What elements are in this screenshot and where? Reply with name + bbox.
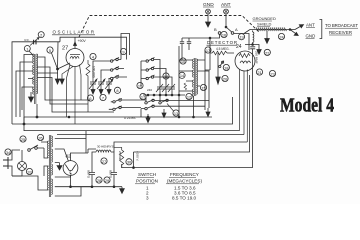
label 2 xyxy=(38,32,44,38)
ground: detector cathode xyxy=(216,77,220,84)
wire: bus y=130.5 xyxy=(24,117,240,131)
svg-text:+90V: +90V xyxy=(78,39,87,43)
rf choke L2 xyxy=(245,31,254,46)
svg-text:22: 22 xyxy=(265,50,269,55)
svg-text:24: 24 xyxy=(236,44,242,50)
svg-text:23: 23 xyxy=(270,71,274,76)
wire: bus y=152 xyxy=(134,75,250,152)
svg-text:18: 18 xyxy=(224,65,228,70)
svg-text:DETECTOR: DETECTOR xyxy=(207,40,237,45)
svg-text:25: 25 xyxy=(21,137,25,142)
label 24 xyxy=(278,33,284,39)
wire: PSU risers xyxy=(85,131,87,154)
svg-text:4: 4 xyxy=(92,54,95,59)
filter choke L3 xyxy=(92,145,114,169)
ground: plate bypass xyxy=(253,45,262,55)
capacitor C29 (8 MFD) xyxy=(109,168,118,187)
wire: T3 left leads xyxy=(41,142,48,190)
chassis dashed boundary xyxy=(79,16,260,38)
wire: bus y=142 xyxy=(114,142,247,152)
label 14 xyxy=(179,72,185,78)
label 17 xyxy=(205,47,211,53)
svg-text:33: 33 xyxy=(27,169,31,174)
label 34 xyxy=(5,149,11,155)
wire: main box left border and top border xyxy=(12,37,127,124)
svg-text:A.2136S: A.2136S xyxy=(124,116,136,120)
svg-text:SHIELD: SHIELD xyxy=(257,22,272,27)
wire: T2 left taps xyxy=(179,46,194,117)
wire: bottom bus y=124 xyxy=(12,97,233,124)
svg-text:(MEGACYCLES): (MEGACYCLES) xyxy=(167,179,202,184)
antenna trimmer C2 xyxy=(25,38,40,46)
label 13 xyxy=(167,104,179,117)
svg-text:250 MMF: 250 MMF xyxy=(254,51,258,64)
capacitor C28 (8 MFD) xyxy=(87,168,96,187)
switch: cathode tap xyxy=(219,61,224,68)
svg-text:12: 12 xyxy=(187,94,191,99)
variable capacitor C6 xyxy=(89,78,97,89)
switch S1a contacts xyxy=(93,58,127,80)
svg-text:8MFD: 8MFD xyxy=(87,170,91,179)
wire: shielded cable xyxy=(244,25,304,36)
svg-text:ANT: ANT xyxy=(306,23,315,28)
ground: from shield cable xyxy=(265,31,270,43)
label 18b xyxy=(223,64,229,70)
brace xyxy=(320,20,322,39)
ground: osc grid return xyxy=(60,79,64,84)
wire: bus y=134.5 xyxy=(57,134,244,136)
label 30 xyxy=(126,159,132,165)
svg-text:4.5 MEG.: 4.5 MEG. xyxy=(216,47,230,51)
wire: trimmer bus xyxy=(143,94,185,96)
capacitor C21 xyxy=(250,47,258,168)
label 22 xyxy=(264,49,270,55)
wire: contact B to circuit xyxy=(182,34,220,38)
tube V3 82 (rectifier) xyxy=(63,153,88,187)
svg-text:Model 4: Model 4 xyxy=(280,96,334,117)
ground: caps common xyxy=(91,88,111,94)
wire: detector cathode xyxy=(217,53,219,77)
transformer T3 (power) xyxy=(48,135,53,197)
svg-text:7: 7 xyxy=(102,95,104,100)
svg-text:5: 5 xyxy=(49,48,51,53)
svg-text:POSITION: POSITION xyxy=(136,179,158,184)
svg-text:3: 3 xyxy=(146,196,149,201)
wire: filter bottom xyxy=(71,186,123,188)
switch S1c contacts xyxy=(109,98,146,110)
svg-text:8: 8 xyxy=(116,88,118,93)
lamp xyxy=(12,150,27,176)
resistor R1 grid leak xyxy=(86,60,96,112)
svg-text:RECEIVER: RECEIVER xyxy=(329,30,352,35)
wire: T1 left taps xyxy=(16,55,33,125)
svg-text:21: 21 xyxy=(257,70,261,75)
switch S2 rows xyxy=(141,95,209,117)
label 7 xyxy=(100,94,106,100)
transformer T1 (antenna coil) xyxy=(33,54,38,104)
switch: power xyxy=(12,145,44,190)
svg-text:100,000: 100,000 xyxy=(92,66,96,78)
label 27 xyxy=(101,158,107,164)
svg-text:A: A xyxy=(235,27,238,32)
svg-text:FREQUENCY: FREQUENCY xyxy=(170,172,199,177)
svg-text:16: 16 xyxy=(222,32,226,37)
trimmer capacitor bank xyxy=(156,84,175,95)
label 4 xyxy=(90,53,96,59)
label 6 xyxy=(87,95,93,101)
svg-text:18: 18 xyxy=(164,74,168,79)
svg-text:25,000: 25,000 xyxy=(118,151,122,161)
resistor R3 bleeder xyxy=(114,147,124,168)
transformer T2 (detector coil) xyxy=(193,58,198,96)
table: switch position / frequency xyxy=(136,172,202,201)
label 10 xyxy=(180,58,186,64)
svg-text:29: 29 xyxy=(105,178,109,183)
label 5 xyxy=(47,47,58,69)
svg-text:27: 27 xyxy=(102,159,106,164)
wire: junction to tube xyxy=(58,42,71,79)
label 16 xyxy=(221,31,227,37)
svg-text:OSCILLATOR: OSCILLATOR xyxy=(53,30,95,35)
svg-text:TO BROADCAST: TO BROADCAST xyxy=(325,23,358,28)
wire: T1 bottom leads xyxy=(36,104,38,117)
ground: filter bottom xyxy=(120,187,125,194)
label 35 xyxy=(37,134,43,140)
switch S1b contacts xyxy=(141,58,172,87)
wire: bottom bus y=117 xyxy=(24,116,212,118)
svg-text:9: 9 xyxy=(122,49,124,54)
label 25 xyxy=(20,136,26,142)
svg-text:1: 1 xyxy=(26,46,28,51)
label 33 xyxy=(26,168,32,174)
variable capacitor C7 xyxy=(97,78,105,89)
label 15 xyxy=(200,84,206,90)
variable capacitor C8 xyxy=(105,78,113,89)
switch: antenna selector xyxy=(214,14,238,34)
svg-text:28: 28 xyxy=(97,178,101,183)
capacitor C: coupling pair xyxy=(180,38,191,50)
label 23 xyxy=(269,70,275,76)
wire: jumper bridge xyxy=(121,34,130,60)
tube V1 27 (oscillator) xyxy=(62,37,84,124)
wire: T3 right taps xyxy=(55,139,92,196)
svg-text:8.5 TO 19.0: 8.5 TO 19.0 xyxy=(172,196,197,201)
label 8 xyxy=(114,87,120,93)
wire: bus y=168 xyxy=(122,152,253,168)
resistor R4 avc xyxy=(184,83,186,90)
label 29 xyxy=(104,177,110,183)
svg-text:30 HENRYS: 30 HENRYS xyxy=(97,145,114,149)
svg-text:SWITCH: SWITCH xyxy=(138,172,156,177)
svg-text:13: 13 xyxy=(174,111,178,116)
resistor R2 grid xyxy=(205,45,234,70)
svg-text:+180 V.: +180 V. xyxy=(136,151,140,161)
label 9 xyxy=(120,48,126,54)
svg-text:27: 27 xyxy=(62,46,68,52)
power plug xyxy=(3,150,20,176)
ground: under T1 xyxy=(29,92,34,102)
ground: under switch S2 xyxy=(146,108,210,123)
svg-text:2: 2 xyxy=(40,33,42,38)
label 16 xyxy=(137,82,143,88)
wire: rectifier output xyxy=(88,149,96,153)
svg-text:26: 26 xyxy=(38,135,42,140)
label 19 xyxy=(238,34,244,40)
label 21 xyxy=(256,69,262,75)
svg-text:GROUNDED: GROUNDED xyxy=(253,16,276,21)
svg-text:17: 17 xyxy=(206,48,210,53)
wire: T2 right taps xyxy=(197,38,210,110)
svg-text:R.F.: R.F. xyxy=(25,38,30,42)
label 18 xyxy=(163,73,169,79)
label 20 xyxy=(222,75,228,81)
label 12 xyxy=(186,93,192,99)
ground: T3 tap xyxy=(57,163,62,170)
label 28 xyxy=(96,177,102,183)
svg-text:6: 6 xyxy=(89,96,91,101)
wire: T1 right taps to middle xyxy=(37,57,114,112)
svg-text:240: 240 xyxy=(147,88,152,92)
label 1 xyxy=(24,46,33,56)
svg-text:B: B xyxy=(214,27,217,32)
svg-text:16: 16 xyxy=(138,83,142,88)
ground: GND terminal xyxy=(206,14,211,27)
svg-text:GND: GND xyxy=(306,34,316,39)
label 17 xyxy=(140,88,152,100)
tube V2 24 (detector) xyxy=(234,34,255,143)
ground: osc cathode xyxy=(55,79,59,84)
svg-text:19: 19 xyxy=(239,35,243,40)
